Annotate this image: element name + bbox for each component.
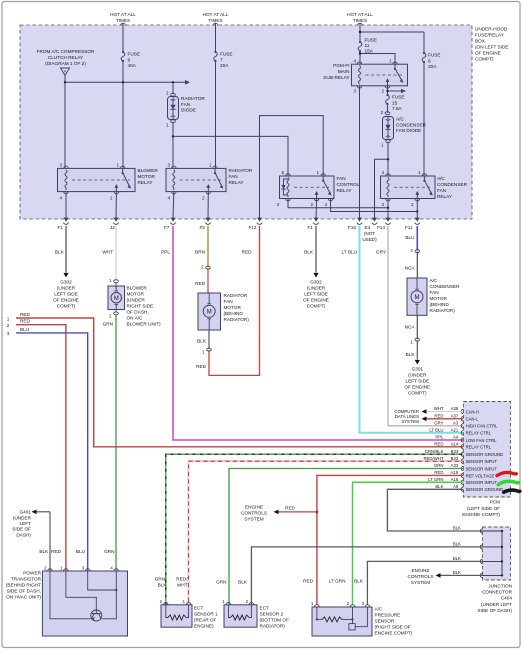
label: junction connector C404 <box>477 584 512 613</box>
svg-text:RIGHT SIDE: RIGHT SIDE <box>127 304 154 309</box>
svg-text:LT GRN: LT GRN <box>329 579 346 584</box>
wire: F11 BLU to a/c condenser fan motor <box>405 226 417 251</box>
svg-text:FROM A/C COMPRESSOR: FROM A/C COMPRESSOR <box>37 49 95 54</box>
a/c pressure sensor <box>311 601 372 636</box>
svg-text:FUSE: FUSE <box>365 38 378 43</box>
svg-text:GRN: GRN <box>103 322 113 327</box>
svg-text:7.5A: 7.5A <box>392 106 403 111</box>
svg-text:(UNDER: (UNDER <box>127 298 146 303</box>
wire: branch to engine controls system (RED) <box>274 506 317 515</box>
ground G302 (left) <box>53 273 79 309</box>
svg-text:USED): USED) <box>362 237 377 242</box>
svg-text:BLK: BLK <box>354 579 364 584</box>
svg-text:FAN: FAN <box>181 102 190 107</box>
power transistor <box>42 565 127 636</box>
svg-text:LEFT: LEFT <box>20 521 32 526</box>
svg-text:15: 15 <box>392 100 398 105</box>
svg-text:BLK: BLK <box>238 580 248 585</box>
label: radiator fan relay <box>229 168 253 185</box>
svg-text:RED: RED <box>285 506 295 511</box>
labels: ECT sensor 2 wire colors <box>216 580 248 585</box>
svg-text:B33: B33 <box>451 449 459 454</box>
PCM pin A33 SENSOR INPUT <box>434 463 498 471</box>
svg-text:A33: A33 <box>451 463 459 468</box>
svg-text:F16: F16 <box>348 225 356 230</box>
svg-text:MOTOR: MOTOR <box>138 174 156 179</box>
svg-text:RADIATOR): RADIATOR) <box>224 317 250 322</box>
svg-text:CONTROL: CONTROL <box>337 182 360 187</box>
svg-text:(BEHIND: (BEHIND <box>224 311 244 316</box>
svg-text:MOTOR: MOTOR <box>224 305 242 310</box>
svg-text:BLOWER: BLOWER <box>127 286 148 291</box>
svg-text:BLK: BLK <box>453 556 461 561</box>
svg-text:BLK: BLK <box>197 339 207 344</box>
svg-text:COMPT): COMPT) <box>408 391 427 396</box>
svg-text:G401: G401 <box>20 510 32 515</box>
svg-text:RADIATOR): RADIATOR) <box>430 308 456 313</box>
svg-text:A4: A4 <box>453 435 459 440</box>
svg-text:DIODE: DIODE <box>181 108 196 113</box>
svg-text:PCM: PCM <box>490 500 501 505</box>
svg-text:OF ENGINE: OF ENGINE <box>53 298 79 303</box>
wire: blower relay pin 4 to F1 <box>65 192 67 219</box>
relay: PGM-FI main sub-relay U5 <box>352 59 408 94</box>
svg-text:ENGINE): ENGINE) <box>194 624 214 629</box>
wire: blower relay pin 2 to J2 <box>115 192 117 219</box>
svg-text:RED: RED <box>303 579 314 584</box>
wire: F1 BLK to G302 (left) <box>55 226 66 273</box>
connector F1 at fuse box edge <box>308 218 319 230</box>
wire 1 RED to PCM A14 relay ctrl <box>7 312 463 447</box>
svg-text:BLK: BLK <box>406 352 416 357</box>
svg-text:(DIAGRAM 1 OF 2): (DIAGRAM 1 OF 2) <box>45 61 86 66</box>
svg-text:(UNDER: (UNDER <box>307 286 326 291</box>
wire: A/C compressor feed bus <box>64 80 190 85</box>
wire: radiator fan motor RED loop to F12 <box>196 226 259 375</box>
svg-text:(ON LEFT SIDE: (ON LEFT SIDE <box>475 45 509 50</box>
svg-text:RED/WHT: RED/WHT <box>423 456 443 461</box>
svg-text:GRY: GRY <box>376 250 387 255</box>
svg-text:A21: A21 <box>451 428 459 433</box>
svg-text:RED: RED <box>242 250 253 255</box>
svg-text:6: 6 <box>428 58 431 63</box>
wire: fuse 11 to PGM-FI relay pin 1 <box>359 52 395 64</box>
svg-text:CONDENSER: CONDENSER <box>430 284 461 289</box>
svg-text:F7: F7 <box>164 225 170 230</box>
fuse 6 20A <box>422 52 440 176</box>
wire: C404 row3 BLK to a/c pressure sensor pin 3 <box>367 561 482 605</box>
svg-text:SIDE OF: SIDE OF <box>12 527 31 532</box>
svg-text:RADIATOR: RADIATOR <box>224 293 248 298</box>
label: RED/BLU/GRN pin colors <box>51 549 114 554</box>
svg-text:RADIATOR: RADIATOR <box>229 168 253 173</box>
annotation scribble red (REF VOLTAGE) <box>497 473 516 476</box>
svg-text:(NOT: (NOT <box>364 231 375 236</box>
node: HOT AT ALL TIMES (fuse 7 feed) <box>203 12 229 52</box>
ground G302 (right) <box>303 273 329 309</box>
svg-text:FAN: FAN <box>437 188 446 193</box>
svg-text:A9: A9 <box>453 484 459 489</box>
wire: F16 LT BLU to PCM A21 relay ctrl <box>342 226 463 433</box>
wire: blower motor GRN to power transistor pin 4 <box>103 314 116 571</box>
svg-text:(UNDER: (UNDER <box>408 373 427 378</box>
svg-text:BLK: BLK <box>435 484 443 489</box>
svg-text:LT GRN: LT GRN <box>428 477 443 482</box>
svg-text:TIMES: TIMES <box>353 18 367 23</box>
svg-text:OF DASH,: OF DASH, <box>127 310 149 315</box>
svg-text:BLK: BLK <box>453 541 461 546</box>
fuse 11 15A <box>358 38 377 65</box>
C404 terminal 1 BLK <box>453 526 483 534</box>
fuse 9 40A <box>121 51 140 82</box>
svg-text:PPL: PPL <box>161 250 170 255</box>
svg-text:REF VOLTAGE: REF VOLTAGE <box>466 473 495 478</box>
svg-text:RED: RED <box>20 312 31 317</box>
wire: radiator fan relay pin 2 to F2 <box>207 192 209 219</box>
svg-text:(UNDER: (UNDER <box>57 286 76 291</box>
PCM pin A21 RELAY CTRL <box>429 428 491 436</box>
svg-text:HOT AT ALL: HOT AT ALL <box>203 12 229 17</box>
wire: GRN/BLK sensor ground B33 to ECT sensor 1 pin 2 <box>166 454 463 605</box>
svg-text:FUSE: FUSE <box>220 52 233 57</box>
node: HOT AT ALL TIMES (fuse 11 feed) <box>347 12 373 42</box>
junction connector C404 (dashed box) <box>483 527 511 580</box>
svg-text:BLK: BLK <box>453 526 461 531</box>
svg-text:SYSTEM: SYSTEM <box>411 580 430 585</box>
svg-text:20A: 20A <box>428 64 437 69</box>
svg-text:LT BLU: LT BLU <box>429 428 443 433</box>
svg-text:FUSE/RELAY: FUSE/RELAY <box>475 33 505 38</box>
svg-text:FAN: FAN <box>430 290 439 295</box>
labels: ECT sensor 1 wire colors <box>155 577 188 588</box>
svg-text:J2: J2 <box>110 225 115 230</box>
svg-text:LEFT SIDE: LEFT SIDE <box>405 379 429 384</box>
wire: blower relay coil feed <box>64 82 66 168</box>
svg-text:RED: RED <box>51 549 62 554</box>
svg-text:A16: A16 <box>451 477 459 482</box>
wire: radiator fan diode pin 1 down <box>166 120 175 169</box>
radiator fan diode <box>168 96 206 120</box>
svg-text:CAN-H: CAN-H <box>466 409 479 414</box>
svg-text:ON HVAC UNIT): ON HVAC UNIT) <box>6 595 41 600</box>
labels: a/c pressure sensor wire colors <box>303 579 364 584</box>
svg-text:1: 1 <box>7 316 10 321</box>
connector F1 at fuse box edge <box>58 218 69 230</box>
wire: diode junction to fan control relay pin 5 <box>173 136 288 176</box>
svg-text:NCA: NCA <box>405 266 416 271</box>
svg-text:(UNDER: (UNDER <box>13 515 32 520</box>
svg-text:HOT AT ALL: HOT AT ALL <box>347 12 373 17</box>
svg-text:SIDE OF DASH): SIDE OF DASH) <box>477 608 512 613</box>
svg-text:BLU: BLU <box>405 235 415 240</box>
label: a/c pressure sensor <box>375 607 413 636</box>
svg-text:LEFT SIDE: LEFT SIDE <box>304 292 328 297</box>
svg-text:LT BLU: LT BLU <box>342 250 358 255</box>
svg-text:11: 11 <box>365 43 370 48</box>
connector F14 at fuse box edge <box>377 218 391 230</box>
svg-text:ECT: ECT <box>194 606 204 611</box>
svg-text:A/C: A/C <box>375 607 383 612</box>
svg-text:(UNDER LEFT: (UNDER LEFT <box>481 602 512 607</box>
svg-text:BLK: BLK <box>39 549 49 554</box>
svg-text:3: 3 <box>7 331 10 336</box>
label: blower motor location <box>127 286 162 327</box>
svg-text:SENSOR 1: SENSOR 1 <box>194 612 218 617</box>
svg-text:MAIN: MAIN <box>338 69 350 74</box>
label: PCM location <box>462 500 500 518</box>
ground G401 <box>12 510 50 538</box>
wire: WHT CAN-H to computer data lines <box>422 409 464 414</box>
svg-text:ON A/C: ON A/C <box>127 316 144 321</box>
wire: PGM-FI pin 2 with branch arrow <box>386 86 406 95</box>
svg-text:RELAY CTRL: RELAY CTRL <box>466 431 492 436</box>
label: a/c condenser fan relay <box>437 176 468 199</box>
wire: bus down to radiator fan diode pin 2 <box>166 82 175 96</box>
svg-text:RELAY: RELAY <box>437 194 453 199</box>
label: radiator fan motor <box>224 293 250 322</box>
svg-text:FUSE: FUSE <box>128 52 141 57</box>
connector F7 at fuse box edge <box>164 218 176 230</box>
wire: RED CAN-L to computer data lines <box>422 417 464 422</box>
wire: fan control relay pin 2 to F1 <box>315 199 318 220</box>
svg-text:7: 7 <box>220 57 223 62</box>
svg-text:RADIATOR: RADIATOR <box>181 96 205 101</box>
PCM pin A3 HIGH FAN CTRL <box>434 421 498 429</box>
svg-text:FUSE: FUSE <box>428 53 441 58</box>
svg-text:2: 2 <box>7 323 10 328</box>
svg-text:SENSOR INPUT: SENSOR INPUT <box>466 459 498 464</box>
svg-text:CLUTCH RELAY: CLUTCH RELAY <box>48 55 84 60</box>
svg-text:9: 9 <box>128 57 131 62</box>
wire: RED ref voltage A19 to a/c pressure sensor pin 1 <box>316 475 463 605</box>
svg-text:GRN: GRN <box>104 549 114 554</box>
C404 terminal 2 BLK <box>453 541 483 549</box>
node A: from A/C compressor clutch relay <box>37 49 95 82</box>
svg-text:A/C: A/C <box>396 117 404 122</box>
svg-text:PRESSURE: PRESSURE <box>375 613 401 618</box>
svg-text:15A: 15A <box>365 49 374 54</box>
PCM pin A4 LOW FAN CTRL <box>435 435 497 443</box>
svg-text:TIMES: TIMES <box>208 18 222 23</box>
wire: condenser relay pin 2 to F11 <box>416 199 418 220</box>
svg-text:FAN: FAN <box>224 299 233 304</box>
svg-text:A/C: A/C <box>430 278 438 283</box>
PCM connector (dashed box) <box>463 402 510 498</box>
svg-text:FAN DIODE: FAN DIODE <box>396 128 421 133</box>
svg-text:OF ENGINE: OF ENGINE <box>404 385 430 390</box>
svg-text:M: M <box>207 309 212 315</box>
label: ECT sensor 2 <box>260 606 289 629</box>
ground G301 <box>404 360 430 396</box>
svg-text:RED/: RED/ <box>176 577 188 582</box>
svg-text:DASH): DASH) <box>16 532 31 537</box>
annotation scribble green (SENSOR INPUT) <box>498 481 518 484</box>
svg-text:WHT: WHT <box>102 250 113 255</box>
svg-text:FUSE: FUSE <box>392 95 405 100</box>
connector F2 at fuse box edge <box>200 218 211 230</box>
annotation scribble black (SENSOR GROUND) <box>504 490 520 492</box>
svg-text:A36: A36 <box>451 406 459 411</box>
svg-text:RED: RED <box>195 281 206 286</box>
svg-text:RED: RED <box>196 364 207 369</box>
ECT sensor 1 <box>160 599 192 627</box>
relay: radiator fan relay <box>166 163 226 201</box>
svg-text:F2: F2 <box>200 225 206 230</box>
under-hood fuse/relay box (dashed enclosure) <box>20 25 472 219</box>
wire: F2 BRN to radiator fan motor <box>195 226 208 267</box>
svg-text:ENGINE COMPT): ENGINE COMPT) <box>375 631 413 636</box>
label: blower motor relay <box>138 168 159 185</box>
PCM pin B33 SENSOR GROUND <box>425 449 503 457</box>
wire: F1 BLK to G302 (right) <box>304 226 316 273</box>
svg-text:A19: A19 <box>451 470 459 475</box>
svg-text:M: M <box>415 295 420 301</box>
svg-text:SENSOR GROUND: SENSOR GROUND <box>466 487 503 492</box>
wire: condenser diode pin 1 to relay pin 4 and E4 <box>375 140 391 219</box>
svg-text:(RIGHT SIDE OF: (RIGHT SIDE OF <box>375 625 411 630</box>
radiator fan motor <box>195 265 220 355</box>
svg-text:A/C: A/C <box>437 176 445 181</box>
svg-text:B23: B23 <box>451 456 459 461</box>
connector F12 at fuse box edge <box>249 218 263 230</box>
svg-text:RELAY: RELAY <box>229 180 245 185</box>
svg-text:WHT: WHT <box>177 583 188 588</box>
svg-text:SUB-RELAY: SUB-RELAY <box>323 75 350 80</box>
svg-text:M: M <box>114 296 119 302</box>
svg-text:G301: G301 <box>412 367 424 372</box>
wire: fan control relay pin 4 to F11 jog <box>331 199 419 213</box>
svg-text:BOX: BOX <box>475 39 486 44</box>
C404 terminal 3 BLK <box>453 556 483 564</box>
svg-text:TIMES: TIMES <box>116 18 130 23</box>
svg-text:OF ENGINE: OF ENGINE <box>303 298 329 303</box>
PCM pin A19 REF VOLTAGE <box>434 470 494 478</box>
svg-text:A: A <box>64 69 67 74</box>
svg-text:HIGH FAN CTRL: HIGH FAN CTRL <box>466 424 499 429</box>
svg-text:POWER: POWER <box>23 571 41 576</box>
svg-text:RED: RED <box>434 442 443 447</box>
svg-text:A14: A14 <box>451 442 459 447</box>
svg-text:GRN: GRN <box>434 463 444 468</box>
svg-text:(BEHIND RIGHT: (BEHIND RIGHT <box>6 583 41 588</box>
svg-text:G302: G302 <box>60 280 72 285</box>
svg-text:BRN: BRN <box>195 250 205 255</box>
svg-text:TRANSISTOR: TRANSISTOR <box>11 577 42 582</box>
svg-text:CONTROLS: CONTROLS <box>407 574 433 579</box>
label: computer data lines system <box>394 409 419 424</box>
svg-text:SENSOR: SENSOR <box>375 619 395 624</box>
svg-text:LEFT SIDE: LEFT SIDE <box>54 292 78 297</box>
svg-text:MOTOR: MOTOR <box>430 296 448 301</box>
svg-text:JUNCTION: JUNCTION <box>488 584 512 589</box>
svg-text:(BEHIND: (BEHIND <box>430 302 450 307</box>
C404 terminal 4 BLK <box>453 570 483 578</box>
fuse 7 20A <box>214 51 233 168</box>
wire: PGM-FI pin 3 to F16 <box>359 86 361 219</box>
svg-text:40A: 40A <box>128 63 137 68</box>
connector E4 at fuse box edge <box>365 218 378 230</box>
svg-text:LOW FAN CTRL: LOW FAN CTRL <box>466 438 498 443</box>
label: power transistor location <box>6 571 42 600</box>
wire: fan control relay pin 3 to F14 jog <box>288 199 389 209</box>
svg-text:COMPT): COMPT) <box>307 304 326 309</box>
a/c condenser fan diode <box>381 110 427 140</box>
wire: bus down to blower relay pin 1 <box>122 82 124 168</box>
svg-text:BLU: BLU <box>76 549 86 554</box>
svg-text:GRN: GRN <box>216 580 226 585</box>
svg-text:COMPT): COMPT) <box>475 57 494 62</box>
svg-text:BLOWER: BLOWER <box>138 168 159 173</box>
svg-text:C404: C404 <box>501 596 513 601</box>
relay: fan control relay <box>277 170 334 207</box>
svg-text:F14: F14 <box>377 225 385 230</box>
svg-text:COMPT): COMPT) <box>57 304 76 309</box>
svg-text:CONNECTOR: CONNECTOR <box>482 590 513 595</box>
svg-text:CAN-L: CAN-L <box>466 417 479 422</box>
label: engine controls system (right) <box>407 568 433 585</box>
svg-text:SENSOR INPUT: SENSOR INPUT <box>466 480 498 485</box>
svg-text:RELAY: RELAY <box>337 188 353 193</box>
svg-text:OF ENGINE: OF ENGINE <box>475 51 501 56</box>
connector F16 at fuse box edge <box>348 218 362 230</box>
label: PGM-FI main sub-relay <box>323 63 350 80</box>
svg-text:A3: A3 <box>453 421 459 426</box>
relay: a/c condenser fan relay <box>381 170 436 207</box>
wire: GRN sensor input A33 to ECT sensor 2 pin 1 <box>229 469 463 606</box>
PCM pin B23 SENSOR INPUT <box>423 456 497 464</box>
svg-text:SYSTEM: SYSTEM <box>401 419 419 424</box>
wire: C404 row2 BLK to ECT sensor 2 pin 2 <box>251 547 482 605</box>
svg-text:SENSOR INPUT: SENSOR INPUT <box>466 466 498 471</box>
svg-text:RED: RED <box>434 470 443 475</box>
svg-text:PGM-FI: PGM-FI <box>333 63 349 68</box>
svg-text:CONDENSER: CONDENSER <box>437 182 468 187</box>
svg-text:(LEFT SIDE OF: (LEFT SIDE OF <box>467 506 500 511</box>
svg-text:FAN: FAN <box>337 176 346 181</box>
blower motor <box>108 278 125 319</box>
svg-text:WHT: WHT <box>434 406 444 411</box>
fuse 15 7.5A <box>386 94 405 113</box>
label: a/c condenser fan motor <box>430 278 461 313</box>
wire: branch to fuse 6 <box>359 31 424 53</box>
svg-text:CONDENSER: CONDENSER <box>396 122 427 127</box>
wire: F12 riser to fan control relay pin 1 <box>260 116 324 219</box>
PCM pin A9 SENSOR GROUND <box>435 484 503 492</box>
svg-text:BLU: BLU <box>20 327 30 332</box>
wire 3 BLU to power transistor pin 3 <box>7 327 88 571</box>
svg-text:HOT AT ALL: HOT AT ALL <box>110 12 136 17</box>
svg-text:SIDE OF DASH,: SIDE OF DASH, <box>7 589 41 594</box>
wire: LT GRN sensor input A16 to a/c pressure sensor pin 2 <box>353 482 464 605</box>
svg-text:PPL: PPL <box>435 435 444 440</box>
svg-text:ENGINE COMPT): ENGINE COMPT) <box>462 512 500 517</box>
node: HOT AT ALL TIMES (fuse 9 feed) <box>110 12 136 52</box>
relay: blower motor relay <box>58 163 136 201</box>
svg-text:UNDER-HOOD: UNDER-HOOD <box>475 27 508 32</box>
svg-text:BLK: BLK <box>304 250 314 255</box>
svg-text:GRY: GRY <box>434 421 443 426</box>
wire: condenser relay pin 3 to F14 <box>387 199 389 220</box>
label: fan control relay <box>337 176 360 193</box>
connector J2 at fuse box edge <box>110 218 119 230</box>
PCM pin A16 SENSOR INPUT <box>428 477 497 485</box>
connector F11 at fuse box edge <box>405 218 420 230</box>
svg-text:(BOTTOM OF: (BOTTOM OF <box>260 618 289 623</box>
wire: radiator fan relay pin 4 to F7 <box>172 192 175 219</box>
svg-text:BLOWER UNIT): BLOWER UNIT) <box>127 322 162 327</box>
svg-text:SENSOR 2: SENSOR 2 <box>260 612 284 617</box>
PCM pin A36 CAN-H <box>434 406 479 414</box>
